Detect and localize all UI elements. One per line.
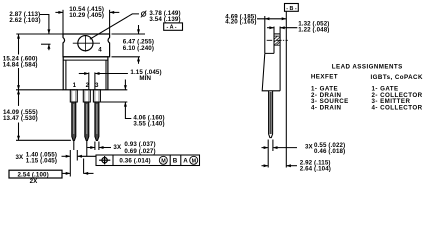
dimension 2.92 left arrow: [262, 165, 268, 167]
dimension 6.47 up arrow: [138, 57, 140, 64]
dimension 10.54 right arrow: [110, 11, 119, 13]
svg-text:A: A: [183, 158, 188, 165]
dimension 1.15 MIN left arrow: [79, 73, 89, 75]
side body back edge: [279, 34, 281, 91]
tab outline: [63, 34, 110, 57]
mounting hole: [78, 36, 93, 51]
svg-text:2.64 (.104): 2.64 (.104): [300, 165, 331, 172]
svg-text:0.36 (.014): 0.36 (.014): [119, 158, 150, 165]
dimension 0.55 left arrow: [262, 147, 268, 149]
body inner right: [105, 60, 107, 90]
svg-text:MIN: MIN: [139, 75, 151, 82]
datum B extension line: [285, 11, 287, 167]
side body: [262, 53, 280, 90]
dimension 15.24 upper segment: [18, 34, 20, 54]
feature control frame: [96, 155, 200, 166]
tab top extension right: [112, 33, 146, 35]
svg-text:3X: 3X: [16, 154, 25, 161]
svg-text:4- DRAIN: 4- DRAIN: [311, 104, 341, 111]
svg-text:LEAD ASSIGNMENTS: LEAD ASSIGNMENTS: [332, 64, 403, 71]
datum B box: [285, 4, 299, 12]
datum A box: [164, 23, 183, 30]
svg-text:6.10 (.240): 6.10 (.240): [123, 45, 154, 52]
dimension 4.06 bottom arrow and elbow: [125, 102, 131, 118]
svg-text:3: 3: [95, 82, 99, 89]
lead tip extension line: [16, 139, 71, 141]
hole center extension left: [41, 43, 51, 45]
lead step extension right: [101, 101, 127, 103]
body outer: [63, 57, 108, 90]
hole center line horizontal: [73, 42, 100, 44]
dimension 0.55 ticks: [267, 140, 269, 168]
svg-text:1.15 (.045): 1.15 (.045): [26, 158, 57, 165]
2.54 right tick: [83, 159, 85, 174]
side hole center line: [267, 39, 288, 41]
svg-text:4.20 (.165): 4.20 (.165): [225, 19, 256, 26]
2.54 left arrow: [62, 172, 70, 174]
hole center line vertical: [84, 35, 86, 52]
svg-text:B: B: [173, 158, 178, 165]
dimension 1.40 left arrow: [62, 155, 70, 157]
svg-text:3X: 3X: [113, 144, 122, 151]
lead 1: [70, 90, 77, 141]
svg-text:2: 2: [86, 82, 90, 89]
dimension 0.93 extension ticks: [94, 142, 96, 151]
dimension 1.32 left arrow: [267, 27, 274, 29]
dimension 10.54 extension lines: [62, 10, 64, 34]
dimension 1.40 right arrow: [78, 155, 96, 157]
svg-text:13.47 (.530): 13.47 (.530): [3, 115, 38, 122]
dimension 2.92 right arrow: [287, 165, 297, 167]
svg-text:M: M: [192, 158, 197, 164]
M circle 1: [159, 156, 167, 164]
2.54 right arrow: [84, 172, 94, 174]
dimension 1.32 right arrow: [281, 27, 298, 29]
lead1 center extension: [73, 141, 75, 151]
svg-text:1: 1: [73, 82, 77, 89]
dimension 4.69 front extension: [264, 16, 266, 53]
dimension 15.24 lower segment: [18, 68, 20, 89]
tab bottom extension right: [112, 56, 141, 58]
svg-text:2X: 2X: [30, 178, 39, 185]
side tab strip: [273, 27, 275, 54]
2.54 basic box: [9, 170, 62, 178]
lead2 center extension: [86, 141, 88, 157]
side hole hatch: [274, 36, 279, 45]
body bottom extension right: [109, 89, 128, 91]
dimension 4.06 top arrow: [124, 80, 126, 90]
dimension 0.55 right arrow: [273, 147, 297, 149]
dimension 14.09 upper segment: [18, 90, 20, 106]
dimension 6.47 down arrow: [138, 25, 140, 34]
svg-text:0.46 (.018): 0.46 (.018): [314, 148, 345, 155]
dimension 2.87 elbow and down arrow: [40, 15, 49, 34]
body bottom extension left: [16, 89, 63, 91]
svg-text:4: 4: [98, 47, 102, 54]
M circle 2: [190, 156, 198, 164]
svg-text:0.93 (.037): 0.93 (.037): [124, 141, 155, 148]
svg-text:HEXFET: HEXFET: [311, 74, 338, 81]
dimension 0.93 left arrow: [87, 147, 94, 149]
position symbol: [99, 156, 110, 164]
dimension 4.69 line with arrows: [257, 18, 286, 20]
lead 2: [83, 90, 90, 141]
dimension 1.40 ticks: [69, 150, 71, 177]
svg-text:3.54 (.139): 3.54 (.139): [149, 16, 180, 23]
hole diameter leader: [90, 14, 139, 39]
dimension 1.15 MIN right arrow: [95, 73, 128, 75]
tab top extension line left: [16, 33, 62, 35]
diameter symbol: [141, 11, 146, 18]
body inner top: [63, 59, 108, 61]
svg-text:3X: 3X: [305, 144, 314, 151]
svg-text:4- COLLECTOR: 4- COLLECTOR: [372, 104, 423, 111]
svg-text:IGBTs, CoPACK: IGBTs, CoPACK: [371, 74, 423, 81]
svg-text:14.84 (.584): 14.84 (.584): [3, 61, 38, 68]
svg-text:- B -: - B -: [286, 6, 297, 12]
svg-text:M: M: [161, 158, 166, 164]
svg-text:- A -: - A -: [167, 25, 177, 31]
dimension 0.93 right arrow: [99, 147, 111, 149]
svg-text:1.22 (.048): 1.22 (.048): [298, 27, 329, 34]
dimension 1.15 MIN gap lines: [88, 72, 90, 89]
dimension 10.54 left arrow: [55, 11, 62, 13]
svg-text:2.62 (.103): 2.62 (.103): [9, 17, 40, 24]
body inner left: [65, 60, 67, 90]
svg-text:0.69 (.027): 0.69 (.027): [124, 148, 155, 155]
side hole edges: [274, 35, 280, 37]
svg-text:10.29 (.405): 10.29 (.405): [69, 12, 104, 19]
dimension 2.87 up arrow: [48, 45, 50, 51]
lead 3: [93, 90, 100, 141]
dimension 14.09 lower segment: [18, 123, 20, 140]
svg-text:3.55 (.140): 3.55 (.140): [133, 120, 164, 127]
side lead: [269, 91, 273, 138]
